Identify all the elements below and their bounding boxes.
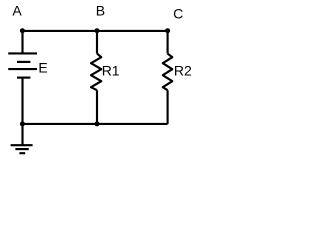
resistor R2 [163,54,173,91]
wire bottom bus [23,123,168,125]
wire node C to R2 top [167,31,169,54]
battery E [8,53,37,77]
wire top bus A-B-C [23,30,168,32]
resistor R1 [91,54,101,91]
node C junction dot [165,28,170,33]
svg-text:R2: R2 [174,63,192,79]
svg-text:B: B [96,3,105,19]
ground [11,145,33,153]
svg-text:A: A [12,3,22,19]
wire node B to R1 top [96,31,98,54]
wire node A to battery top [21,31,23,54]
svg-text:E: E [38,59,47,75]
bottom-left junction dot [20,121,25,126]
svg-text:C: C [173,6,183,22]
bottom-middle junction dot [95,121,100,126]
wire battery bottom to bottom bus [21,78,23,124]
wire R1 bottom to bottom bus [96,90,98,124]
wire to ground [21,124,23,145]
node B junction dot [95,28,100,33]
node A junction dot [20,28,25,33]
svg-text:R1: R1 [102,63,120,79]
wire R2 bottom to bottom bus [167,90,169,124]
